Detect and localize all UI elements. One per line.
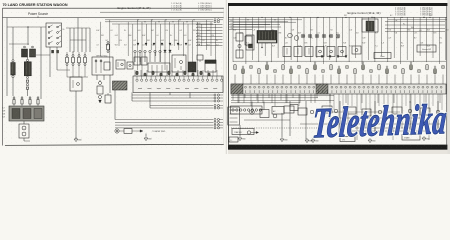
EGR valve block	[362, 19, 378, 32]
wire	[149, 93, 151, 109]
sub connector row	[231, 106, 263, 114]
wire	[49, 47, 51, 77]
arrow markers row	[137, 43, 187, 45]
wire	[205, 20, 207, 50]
below bottom bar shading	[228, 150, 450, 154]
aux circle 5	[436, 110, 440, 114]
wire	[151, 70, 153, 78]
junction	[423, 17, 424, 18]
wire	[266, 75, 268, 85]
wire	[177, 70, 179, 78]
svg-text:4 : 22R-E (J/B No.1): 4 : 22R-E (J/B No.1)	[198, 5, 212, 7]
wire	[84, 52, 86, 55]
wire	[12, 27, 14, 60]
power transistor 1	[288, 33, 293, 38]
bus line 2b	[388, 19, 447, 21]
wire	[335, 17, 337, 62]
wire	[150, 105, 213, 107]
aux box 6	[392, 107, 402, 114]
bus line	[105, 21, 213, 23]
junction	[27, 26, 28, 27]
wire	[258, 75, 260, 85]
power transistor 2	[294, 36, 299, 41]
wire	[78, 52, 80, 55]
connector pair	[214, 104, 223, 106]
speed sensor box	[260, 110, 269, 118]
wire	[251, 17, 253, 60]
wire	[40, 27, 42, 99]
bottom hline 2	[300, 123, 340, 125]
wire color labels right page	[233, 30, 448, 48]
wire	[159, 53, 161, 62]
aux box 7	[420, 108, 430, 115]
junction	[72, 51, 73, 52]
wire	[139, 53, 141, 62]
connector blob row left page	[136, 71, 210, 77]
ECM connector strip left page	[133, 76, 223, 93]
wire	[75, 91, 77, 139]
wire	[12, 78, 14, 96]
wire	[66, 27, 90, 29]
ground G4	[280, 137, 288, 142]
wire	[374, 17, 376, 62]
wire	[303, 17, 305, 56]
wire	[85, 28, 87, 52]
tall connector box	[246, 35, 254, 50]
wire	[378, 75, 380, 85]
right page right border	[446, 6, 448, 145]
fuse symbol	[84, 55, 87, 66]
connector pair	[214, 19, 223, 21]
wire	[136, 20, 138, 70]
vacuum switch box	[417, 45, 436, 52]
wire	[309, 17, 311, 62]
wire	[57, 69, 70, 71]
wire	[362, 75, 364, 85]
ground G2	[144, 136, 152, 141]
wire from previous page	[229, 25, 281, 27]
wire	[100, 22, 102, 56]
wire	[409, 101, 411, 130]
wire	[146, 70, 148, 78]
junction	[179, 19, 180, 20]
wire	[348, 17, 350, 62]
wire	[234, 75, 236, 85]
junction	[186, 21, 187, 22]
knock sensor	[273, 114, 277, 118]
wire	[132, 130, 140, 132]
wire	[164, 20, 166, 70]
wire	[250, 75, 252, 85]
junction connector row	[134, 50, 161, 52]
wire	[132, 94, 213, 96]
wire	[66, 52, 68, 55]
wire	[346, 75, 348, 85]
junction	[151, 19, 152, 20]
wire	[413, 17, 415, 62]
fuse symbol	[72, 55, 75, 66]
diode block	[105, 93, 111, 103]
relay box below strip	[272, 107, 284, 115]
wire	[187, 24, 189, 62]
wire	[70, 39, 86, 41]
wire	[322, 17, 324, 64]
wire	[67, 76, 88, 78]
wire	[149, 53, 151, 62]
wire to next page	[196, 35, 223, 37]
resistor	[124, 129, 132, 134]
condenser	[197, 55, 203, 62]
right page edge shading	[447, 0, 450, 154]
wire	[173, 24, 175, 46]
wire	[342, 17, 344, 56]
wire to next page	[196, 23, 223, 25]
wire	[182, 70, 184, 78]
wire	[339, 101, 341, 132]
wire	[132, 100, 213, 102]
relay 3	[172, 55, 186, 72]
bottom hline 1	[244, 119, 290, 121]
ecu pigtail wires	[238, 94, 440, 103]
junction	[165, 19, 166, 20]
connector pair	[214, 21, 220, 23]
dashpot box	[352, 46, 361, 54]
left page right edge	[223, 8, 225, 144]
wire to next page	[196, 29, 223, 31]
aux box 5	[362, 109, 371, 116]
connector pair	[213, 94, 223, 96]
wire	[132, 24, 134, 62]
junction	[247, 19, 248, 20]
wire	[145, 134, 147, 137]
wire from previous page	[229, 20, 288, 22]
wire	[161, 70, 163, 78]
igniter connector block	[257, 31, 277, 49]
wire	[115, 127, 213, 129]
fuse links above junction block	[13, 96, 39, 106]
bottom label box 2	[340, 137, 355, 142]
junction	[401, 17, 402, 18]
wire	[66, 66, 68, 78]
wire	[27, 89, 29, 96]
wire	[27, 27, 29, 45]
battery	[19, 124, 29, 138]
wire to next page	[196, 38, 223, 40]
right page left border	[227, 6, 229, 145]
bottom label box 3	[402, 135, 420, 141]
aux box 4	[346, 107, 356, 114]
wire	[437, 101, 439, 132]
wire	[201, 24, 203, 46]
wire	[182, 22, 184, 56]
wire	[127, 22, 129, 56]
ground G3	[238, 136, 246, 141]
junction	[373, 17, 374, 18]
wire to next page	[196, 44, 223, 46]
wire	[197, 70, 199, 78]
wire	[432, 17, 434, 58]
wire	[99, 80, 101, 82]
wire color labels left page	[96, 30, 218, 47]
wire	[400, 17, 402, 64]
fusible link FL1	[11, 60, 15, 78]
fuse symbol	[66, 55, 69, 66]
wire to next page	[196, 41, 223, 43]
sensor connector row	[234, 62, 445, 74]
scan noise overlay	[2, 8, 448, 148]
wire	[118, 24, 120, 46]
wire	[166, 70, 168, 78]
wire	[434, 75, 436, 85]
junction	[429, 17, 430, 18]
wire	[297, 17, 299, 62]
wire	[290, 75, 292, 85]
wire	[56, 47, 58, 70]
wire	[380, 17, 382, 56]
noise filter	[188, 62, 196, 72]
wire	[140, 70, 142, 78]
wire	[251, 102, 253, 110]
wire	[282, 75, 284, 85]
junction block body	[9, 106, 44, 121]
aux box 1	[284, 106, 294, 113]
ECM connector strip right page	[231, 84, 446, 94]
wire	[155, 22, 157, 56]
wire	[192, 20, 194, 70]
fuse holder details	[26, 80, 28, 89]
switch contact block A	[51, 50, 54, 53]
wire	[134, 70, 136, 78]
wire	[284, 17, 286, 64]
wire	[144, 53, 146, 62]
fuse above EFI relay	[107, 42, 110, 53]
bottom hline 3	[355, 127, 410, 129]
wire	[178, 20, 180, 50]
right page top black bar	[228, 3, 450, 6]
wire	[418, 75, 420, 85]
wire	[258, 17, 260, 62]
wire	[27, 57, 29, 60]
wire	[289, 101, 291, 136]
wire	[96, 75, 98, 80]
wire	[355, 17, 357, 58]
wire	[290, 17, 292, 60]
wire	[419, 17, 421, 56]
right page bottom black bar	[228, 145, 450, 150]
wire	[242, 75, 244, 85]
sensor boxes row 2	[316, 47, 346, 57]
main bus line	[228, 16, 446, 18]
air flow meter box	[374, 53, 391, 59]
junction	[172, 21, 173, 22]
arrowheads row	[321, 56, 347, 59]
wire	[354, 75, 356, 85]
wire	[442, 75, 444, 85]
svg-text:2 : J/C No.2 (B): 2 : J/C No.2 (B)	[171, 5, 182, 7]
wire	[202, 70, 204, 78]
junction	[371, 17, 372, 18]
wire	[24, 140, 30, 142]
wire	[141, 22, 143, 77]
ground G6	[368, 138, 376, 143]
lower bus line right page	[233, 60, 446, 62]
wire	[239, 17, 241, 58]
wire	[361, 17, 363, 64]
wire from previous page	[229, 28, 252, 30]
wire	[115, 124, 213, 126]
wire	[103, 75, 105, 80]
wire	[330, 75, 332, 85]
arrow node	[140, 130, 143, 132]
wire	[72, 66, 74, 78]
wire	[274, 75, 276, 85]
wire branch	[385, 23, 445, 25]
wire	[264, 17, 266, 56]
wire	[445, 17, 447, 60]
wire	[84, 66, 86, 78]
ignition switch	[46, 23, 62, 47]
wire	[305, 101, 307, 139]
section header Power Source	[3, 12, 225, 17]
boxed label bottom left	[229, 137, 238, 142]
wire from previous page	[229, 23, 270, 25]
wire	[277, 17, 279, 58]
connector pair	[213, 97, 223, 99]
wire	[159, 24, 161, 62]
wire	[239, 125, 241, 136]
wire	[187, 70, 189, 78]
wire	[306, 75, 308, 85]
wire	[89, 28, 91, 52]
wire	[69, 28, 71, 52]
vertical drops from ECU strip	[233, 94, 317, 106]
circuit opening relay	[116, 60, 125, 69]
wire	[132, 97, 213, 99]
right page gutter shadow	[225, 0, 227, 154]
wire	[131, 93, 133, 102]
ignition coil	[22, 46, 28, 57]
svg-text:Teletehnika: Teletehnika	[311, 96, 448, 147]
left page frame	[3, 8, 225, 145]
wire to next page	[196, 32, 223, 34]
bus line 2	[228, 19, 302, 21]
wire	[338, 75, 340, 85]
solenoid resistor block	[148, 63, 170, 72]
junction	[345, 17, 346, 18]
wire	[263, 102, 265, 110]
connector pair	[214, 127, 223, 129]
wire	[119, 130, 124, 132]
wire branch	[385, 20, 445, 22]
bus line 4	[233, 24, 280, 26]
junction	[317, 17, 318, 18]
wire	[232, 17, 234, 62]
wire	[115, 119, 213, 121]
wire	[394, 75, 396, 85]
aux circle 2	[334, 109, 338, 113]
distributor small box	[127, 62, 133, 69]
wire	[23, 121, 25, 124]
wire	[386, 75, 388, 85]
junction	[289, 17, 290, 18]
wire	[77, 18, 79, 28]
wire	[370, 75, 372, 85]
wire	[36, 54, 50, 56]
small component boxes left cluster	[236, 33, 252, 58]
wire	[154, 53, 156, 62]
aux circle	[310, 110, 314, 114]
wire	[410, 75, 412, 85]
connector pair	[214, 121, 223, 123]
connector pair	[214, 124, 223, 126]
switch contact block B	[56, 50, 59, 53]
wire	[146, 24, 148, 46]
wire	[192, 70, 194, 78]
Teletehnika watermark	[311, 96, 448, 147]
fusible link FL2	[24, 59, 31, 78]
wire	[212, 70, 214, 78]
wire	[9, 43, 29, 45]
wire	[77, 28, 79, 52]
junction	[158, 21, 159, 22]
resistor pack	[228, 107, 240, 125]
wire	[387, 17, 389, 62]
aux circle 3	[378, 110, 382, 114]
wire	[438, 17, 440, 64]
small box below strip	[290, 105, 298, 111]
wire	[114, 90, 116, 120]
bus line	[112, 23, 213, 25]
igniter block	[205, 60, 216, 72]
oval component cluster	[247, 131, 258, 134]
wire	[23, 138, 25, 141]
junction	[193, 19, 194, 20]
legend connector codes right page	[395, 7, 433, 16]
bottom label box 1	[232, 129, 254, 135]
wire	[271, 17, 273, 62]
ground G5	[305, 138, 313, 143]
svg-text:70 LAND CRUISER STATION WAGON: 70 LAND CRUISER STATION WAGON	[3, 3, 68, 7]
shield dotted line	[231, 127, 318, 129]
sub bus lines	[231, 95, 334, 103]
cold start injector	[115, 129, 119, 133]
EFI main relay block	[92, 55, 113, 75]
aux box 2	[298, 108, 307, 115]
junction	[274, 19, 275, 20]
wire	[134, 53, 136, 62]
wire	[78, 66, 80, 78]
wire branch	[385, 30, 445, 32]
wire	[215, 24, 217, 62]
wire	[72, 52, 74, 55]
wire	[109, 75, 111, 93]
wire	[196, 22, 198, 77]
ground G1	[74, 137, 82, 142]
aux circle 4	[408, 109, 412, 113]
resistor cluster	[97, 82, 103, 104]
ground G7	[422, 136, 430, 141]
wire	[329, 17, 331, 60]
wire	[314, 75, 316, 85]
wire	[189, 93, 191, 99]
wire	[169, 22, 171, 77]
junction	[144, 21, 145, 22]
condenser	[30, 46, 36, 57]
check connector boxes	[134, 57, 147, 65]
wire	[156, 70, 158, 78]
wire	[207, 70, 209, 78]
bus line	[105, 19, 213, 21]
